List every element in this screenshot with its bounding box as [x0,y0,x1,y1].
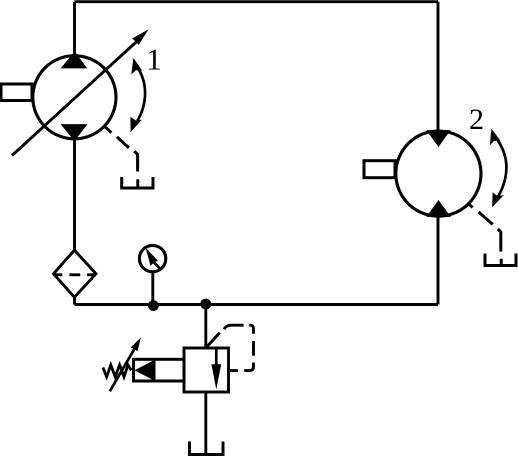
wire right vertical to motor 2 inlet [437,2,440,130]
motor U2 shaft [364,161,395,178]
drain line of U2 (dashed) [468,203,501,251]
wire gauge stem [151,273,154,305]
wire relief valve outlet down to tank T3 [204,392,207,455]
relief valve V1 body [184,348,229,392]
drain line of U1 (dashed) [104,126,137,171]
wire pump 1 outlet to top line [73,2,76,53]
spring (adjustable) [103,365,131,377]
pilot actuator triangle [136,360,156,380]
rotation arrow 1 (curved double-head) [130,58,145,132]
wire bottom line [75,303,439,306]
junction node B (relief branch) [200,299,211,310]
pump U1 top triangle [62,52,87,68]
svg-text:1: 1 [146,42,162,77]
motor U2 top triangle [427,131,449,147]
pressure gauge PG needle [145,247,160,269]
wire relief valve branch down from node B [204,305,207,349]
tank T1 [122,177,153,188]
relief valve V1 flow arrow [211,349,221,390]
motor U2 bottom triangle [427,201,450,217]
svg-text:2: 2 [469,103,484,136]
wire filter to bottom-left corner [75,297,77,305]
tank T3 (relief outlet) [190,442,224,455]
wire pump 1 inlet down to filter [73,140,76,250]
filter F diamond [54,250,97,297]
wire motor 2 outlet to bottom line [437,217,440,305]
tank T2 [485,254,516,266]
rotation arrow 2 (curved double-head) [490,129,507,208]
pressure gauge PG circle [139,245,165,271]
motor U2 circle [396,131,481,216]
wire top line [75,0,439,3]
relief valve pilot actuator box [134,359,185,381]
pump U1 bottom triangle [62,125,87,141]
pump U1 circle [33,56,116,139]
pilot line (dashed) from valve top to spring chamber [207,325,254,370]
pump U1 shaft [1,84,32,101]
spring adjustment arrow [110,337,141,391]
junction node A (gauge tap) [148,300,159,311]
variable displacement arrow of U1 [12,29,149,155]
filter F dashed element line [54,273,96,276]
